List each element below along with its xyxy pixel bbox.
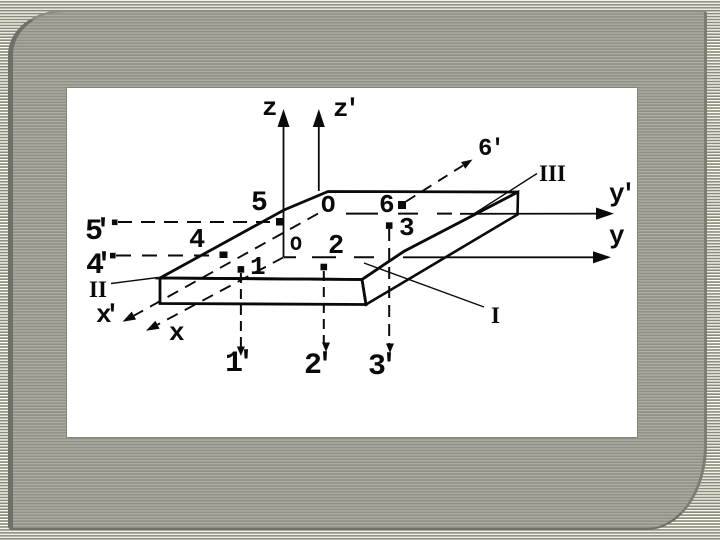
svg-text:y': y' [609,179,636,209]
point 6 marker [398,201,406,209]
svg-text:2': 2' [304,349,334,383]
plate top face [160,192,518,280]
y axis solid part [403,251,611,263]
point 1 marker [238,266,245,273]
z' axis [313,109,325,191]
x axis dashed [146,257,284,331]
svg-text:z: z [262,93,278,123]
svg-text:x: x [169,318,185,348]
plate front face [160,278,366,305]
point 1 dashed projection line [240,273,242,348]
svg-text:6: 6 [379,190,395,220]
point 2 projection arrow [322,343,330,353]
point 2 marker [321,264,328,271]
point 1 projection arrow [237,347,245,357]
svg-text:1: 1 [250,252,266,282]
leader line I [364,263,484,307]
point 3 projection arrow [386,344,394,354]
6' arrow [461,160,472,169]
point 5 marker [276,218,284,226]
svg-text:3: 3 [399,213,415,243]
white drawing panel [67,88,637,437]
y' axis solid part [460,208,614,220]
svg-text:4: 4 [189,226,205,256]
point 3 dashed projection line [388,229,390,345]
6 to 6' dashed line [406,166,463,202]
svg-text:z': z' [333,94,360,124]
4' dashed line [116,255,218,257]
5' dashed line [118,221,274,223]
point 4 marker [220,252,228,259]
svg-text:2: 2 [328,232,344,262]
point 2 dashed projection line [323,271,325,344]
svg-text:I: I [491,303,500,328]
point 3 marker [386,222,393,229]
svg-text:x': x' [96,300,120,330]
y' axis dashed part [346,213,452,215]
point 5' marker [112,220,118,226]
svg-text:1': 1' [225,347,255,381]
leader line II [111,278,158,284]
svg-text:5': 5' [85,215,112,249]
svg-text:O: O [321,193,335,220]
svg-text:6': 6' [478,136,505,163]
leader line III [458,174,537,225]
z axis [278,109,290,257]
svg-text:5: 5 [251,188,268,219]
point 4' marker [110,253,116,259]
svg-text:II: II [89,277,107,302]
plate right face [362,192,518,305]
svg-text:III: III [539,161,566,186]
svg-text:O: O [290,234,302,257]
svg-text:y: y [609,221,625,251]
y axis dashed part [284,256,374,258]
x' axis dashed [123,214,319,322]
svg-text:3': 3' [368,350,398,384]
